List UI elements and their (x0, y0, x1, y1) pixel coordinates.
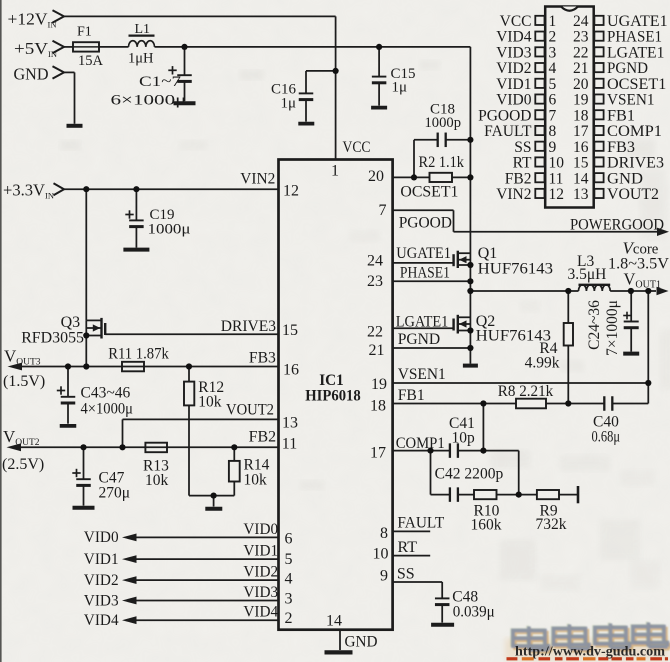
svg-text:1000μ: 1000μ (148, 222, 191, 238)
svg-text:HIP6018: HIP6018 (305, 388, 361, 405)
svg-text:7: 7 (379, 202, 387, 219)
svg-text:10p: 10p (452, 430, 476, 447)
svg-text:21: 21 (573, 60, 589, 77)
svg-text:VSEN1: VSEN1 (607, 92, 655, 109)
svg-text:POWERGOOD: POWERGOOD (570, 217, 664, 234)
svg-text:C42 2200p: C42 2200p (435, 466, 504, 483)
svg-text:16: 16 (573, 139, 589, 156)
svg-text:3: 3 (285, 591, 293, 608)
svg-text:12: 12 (283, 183, 299, 200)
svg-text:8: 8 (380, 525, 388, 542)
svg-text:VID2: VID2 (84, 572, 119, 589)
svg-text:GND: GND (607, 170, 643, 187)
svg-text:22: 22 (573, 44, 589, 61)
svg-text:FB2: FB2 (505, 170, 532, 187)
svg-text:10: 10 (373, 546, 389, 563)
svg-text:FB3: FB3 (607, 139, 635, 156)
svg-text:PGOOD: PGOOD (399, 215, 452, 232)
svg-text:VID4: VID4 (243, 604, 278, 621)
svg-text:732k: 732k (536, 516, 567, 533)
svg-text:PHASE1: PHASE1 (400, 265, 450, 282)
svg-text:(1.5V): (1.5V) (3, 373, 45, 390)
svg-text:13: 13 (573, 186, 589, 203)
svg-text:C43~46: C43~46 (81, 385, 131, 402)
svg-text:(2.5V): (2.5V) (2, 456, 44, 473)
svg-text:FAULT: FAULT (397, 515, 444, 532)
svg-text:14: 14 (573, 170, 589, 187)
svg-text:F1: F1 (77, 25, 92, 40)
svg-text:5: 5 (549, 76, 557, 93)
svg-text:2: 2 (285, 610, 293, 627)
svg-text:9: 9 (549, 139, 557, 156)
svg-text:1μH: 1μH (128, 51, 154, 67)
svg-text:GND: GND (345, 634, 378, 651)
svg-text:21: 21 (369, 342, 385, 359)
svg-text:20: 20 (368, 168, 384, 185)
svg-text:22: 22 (367, 324, 383, 341)
svg-text:OCSET1: OCSET1 (607, 76, 666, 93)
svg-text:C24~36: C24~36 (586, 300, 603, 350)
svg-text:VID4: VID4 (496, 29, 532, 46)
svg-text:PGND: PGND (607, 60, 648, 77)
svg-text:Q1: Q1 (478, 245, 498, 262)
svg-text:PGOOD: PGOOD (478, 107, 531, 124)
svg-text:IC1: IC1 (319, 372, 344, 389)
svg-text:3: 3 (549, 44, 557, 61)
svg-text:DRIVE3: DRIVE3 (221, 318, 276, 335)
svg-text:VID0: VID0 (496, 92, 532, 109)
svg-text:10k: 10k (145, 472, 169, 489)
svg-text:1: 1 (549, 13, 557, 30)
svg-text:RT: RT (398, 539, 418, 556)
svg-text:VID3: VID3 (84, 592, 119, 609)
svg-text:6: 6 (549, 92, 557, 109)
svg-text:4: 4 (549, 60, 557, 77)
svg-text:14: 14 (326, 613, 342, 630)
svg-text:FB1: FB1 (398, 387, 425, 404)
svg-text:23: 23 (367, 273, 383, 290)
svg-text:6×1000μ: 6×1000μ (111, 93, 187, 109)
svg-text:Q3: Q3 (61, 314, 81, 331)
svg-text:4.99k: 4.99k (525, 355, 560, 372)
svg-text:R11 1.87k: R11 1.87k (108, 346, 169, 363)
svg-text:10: 10 (549, 155, 565, 172)
svg-text:4×1000μ: 4×1000μ (81, 401, 134, 418)
svg-text:7: 7 (549, 107, 557, 124)
svg-text:23: 23 (573, 29, 589, 46)
svg-text:VSEN1: VSEN1 (398, 366, 446, 383)
svg-text:L1: L1 (135, 22, 151, 37)
svg-text:24: 24 (573, 13, 589, 30)
svg-text:VIN2: VIN2 (496, 186, 531, 203)
svg-text:15: 15 (282, 322, 298, 339)
svg-text:18: 18 (370, 398, 386, 415)
svg-text:VID2: VID2 (496, 60, 531, 77)
svg-text:10k: 10k (244, 472, 268, 489)
svg-text:19: 19 (573, 92, 589, 109)
svg-text:RT: RT (513, 155, 532, 172)
svg-text:0.039μ: 0.039μ (453, 604, 495, 621)
svg-text:3.5μH: 3.5μH (568, 266, 607, 283)
svg-text:LGATE1: LGATE1 (607, 44, 664, 61)
svg-text:PHASE1: PHASE1 (607, 29, 662, 46)
svg-text:1.8~3.5V: 1.8~3.5V (608, 256, 670, 273)
svg-text:24: 24 (367, 253, 383, 270)
svg-text:R2 1.1k: R2 1.1k (419, 154, 465, 171)
svg-text:2: 2 (549, 29, 557, 46)
svg-text:VIN2: VIN2 (240, 171, 275, 188)
svg-text:UGATE1: UGATE1 (396, 245, 451, 262)
svg-text:1μ: 1μ (392, 80, 408, 96)
svg-text:C1~7: C1~7 (139, 74, 182, 90)
svg-text:15: 15 (573, 155, 589, 172)
svg-text:VOUT2: VOUT2 (607, 186, 659, 203)
svg-text:COMP1: COMP1 (607, 123, 662, 140)
svg-text:11: 11 (549, 170, 564, 187)
svg-text:270μ: 270μ (99, 485, 131, 502)
svg-text:FB3: FB3 (249, 350, 276, 367)
svg-text:6: 6 (285, 531, 293, 548)
svg-text:VID1: VID1 (243, 543, 278, 560)
svg-text:4: 4 (285, 571, 293, 588)
svg-text:VID3: VID3 (496, 44, 532, 61)
svg-text:12: 12 (549, 186, 565, 203)
svg-text:VID1: VID1 (496, 76, 531, 93)
svg-text:13: 13 (282, 415, 298, 432)
svg-text:19: 19 (371, 376, 387, 393)
svg-text:0.68μ: 0.68μ (592, 429, 621, 446)
svg-text:10k: 10k (198, 394, 222, 411)
svg-text:VID0: VID0 (243, 521, 278, 538)
svg-text:UGATE1: UGATE1 (607, 13, 668, 30)
svg-text:VID2: VID2 (243, 564, 278, 581)
svg-text:VID3: VID3 (243, 584, 278, 601)
svg-text:VOUT2: VOUT2 (226, 402, 274, 419)
svg-text:OCSET1: OCSET1 (400, 184, 458, 201)
svg-text:COMP1: COMP1 (396, 435, 445, 452)
svg-text:SS: SS (514, 139, 531, 156)
svg-text:17: 17 (573, 123, 589, 140)
svg-text:RFD3055: RFD3055 (21, 330, 84, 347)
svg-text:1μ: 1μ (280, 96, 296, 112)
svg-text:R8 2.21k: R8 2.21k (498, 383, 554, 400)
svg-text:DRIVE3: DRIVE3 (607, 155, 664, 172)
svg-text:18: 18 (573, 107, 589, 124)
svg-text:GND: GND (14, 65, 49, 84)
svg-text:VCC: VCC (500, 13, 532, 30)
svg-text:LGATE1: LGATE1 (396, 314, 449, 331)
svg-text:HUF76143: HUF76143 (478, 261, 553, 278)
svg-text:VID4: VID4 (84, 612, 119, 629)
svg-text:7×1000μ: 7×1000μ (604, 300, 621, 356)
svg-text:9: 9 (380, 568, 388, 585)
svg-text:15A: 15A (78, 53, 104, 69)
svg-text:FB1: FB1 (607, 107, 635, 124)
svg-text:8: 8 (549, 123, 557, 140)
svg-text:20: 20 (573, 76, 589, 93)
svg-text:VCC: VCC (343, 139, 371, 156)
svg-text:SS: SS (397, 566, 415, 583)
svg-text:PGND: PGND (398, 331, 441, 348)
svg-text:17: 17 (370, 445, 386, 462)
svg-text:VID0: VID0 (84, 529, 119, 546)
svg-text:16: 16 (283, 362, 299, 379)
svg-text:VID1: VID1 (84, 551, 119, 568)
svg-text:http://www.dv-gudu.com: http://www.dv-gudu.com (515, 644, 666, 659)
svg-text:5: 5 (285, 551, 293, 568)
svg-text:1: 1 (331, 163, 339, 180)
svg-text:FB2: FB2 (249, 429, 277, 446)
svg-text:160k: 160k (471, 517, 502, 534)
svg-text:11: 11 (282, 436, 297, 453)
svg-text:1000p: 1000p (425, 115, 462, 131)
svg-text:FAULT: FAULT (484, 123, 532, 140)
